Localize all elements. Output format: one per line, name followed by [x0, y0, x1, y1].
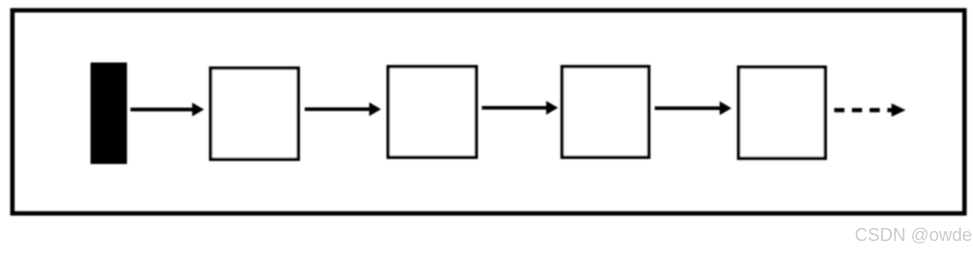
box 3: [562, 67, 649, 158]
arrow 2: [305, 102, 381, 116]
filled start block: [91, 63, 128, 165]
box 1: [211, 68, 299, 159]
arrow 4: [655, 101, 732, 115]
arrow 3: [482, 101, 558, 115]
outer frame: [12, 10, 964, 213]
arrow 1: [130, 103, 204, 117]
dashed continuation arrow: [834, 103, 906, 116]
box 2: [388, 67, 476, 158]
watermark CSDN @owde: [855, 225, 972, 246]
box 4: [739, 67, 826, 158]
